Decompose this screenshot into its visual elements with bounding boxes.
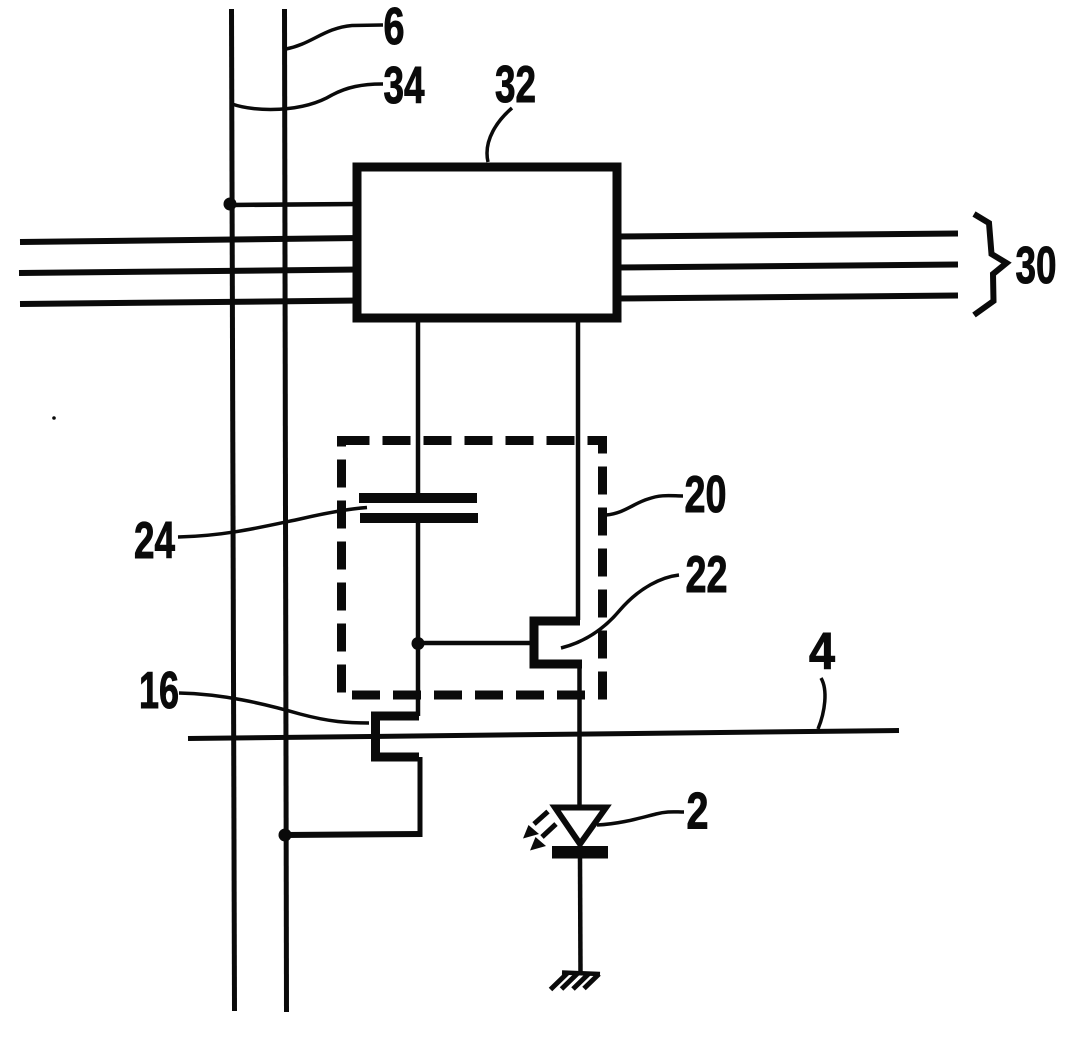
node junction dot on line 34 — [224, 198, 237, 211]
node speck (scan artifact) — [52, 416, 56, 420]
wire bus line left 3 — [20, 301, 360, 305]
wire source of T22 down to LED — [577, 664, 582, 807]
wire vertical data line 34 (left rail) — [232, 9, 235, 1011]
wire bus line left 1 — [20, 238, 360, 242]
wire vertical power line 6 (right rail) — [285, 9, 287, 1012]
svg-text:6: 6 — [384, 0, 405, 56]
label 16 leader — [179, 693, 369, 723]
wire box output right (drain of T22) — [576, 320, 581, 620]
label 32 leader — [487, 108, 512, 162]
wire bus line right 1 — [615, 234, 958, 237]
wire bus line right 2 — [615, 265, 958, 268]
transistor Q22 (drive TFT channel bracket) — [534, 621, 582, 664]
LED light arrow upper — [534, 812, 548, 825]
wire bus line right 3 — [615, 296, 958, 299]
svg-text:22: 22 — [686, 546, 728, 604]
brace for bus 30 — [974, 214, 1007, 315]
svg-text:16: 16 — [139, 662, 179, 720]
label 20 leader — [606, 496, 683, 515]
LED D2 triangle (anode) — [555, 808, 606, 845]
wire LED cathode down — [578, 858, 583, 973]
wire bus line left 2 — [19, 270, 360, 274]
svg-text:4: 4 — [809, 623, 835, 681]
node junction dot (gate node) — [412, 637, 425, 650]
label 24 leader — [178, 508, 367, 538]
label 34 leader — [232, 84, 383, 109]
label 2 leader — [597, 812, 684, 825]
svg-text:32: 32 — [495, 56, 536, 114]
driver circuit box U32 — [357, 167, 617, 318]
LED light arrow lower — [542, 824, 556, 837]
svg-text:20: 20 — [685, 466, 727, 524]
wire bottom connector to line 6 — [285, 834, 423, 835]
svg-text:30: 30 — [1016, 237, 1057, 295]
wire select line 4 — [188, 731, 899, 739]
LED D2 cathode bar — [552, 846, 608, 859]
wire gate lead of T22 — [418, 641, 532, 646]
label 22 leader — [561, 575, 679, 648]
svg-text:34: 34 — [384, 57, 425, 115]
capacitor C24 top plate — [359, 493, 477, 503]
wire capacitor bottom to junction — [416, 522, 421, 648]
wire from dot to box 32 — [230, 204, 358, 205]
wire source of T16 down — [418, 757, 423, 835]
svg-text:2: 2 — [687, 783, 709, 841]
label 6 leader — [286, 25, 383, 49]
svg-text:24: 24 — [134, 512, 175, 570]
wire junction down to T16 drain — [416, 644, 421, 716]
ground — [562, 973, 600, 975]
dashed pixel-circuit box 20 — [342, 441, 603, 696]
node junction dot on line 6 — [279, 829, 292, 842]
capacitor C24 bottom plate — [360, 513, 478, 523]
label 4 leader — [818, 678, 825, 729]
wire box output left (to capacitor) — [416, 320, 421, 494]
transistor Q16 (switching TFT channel bracket) — [376, 716, 420, 757]
